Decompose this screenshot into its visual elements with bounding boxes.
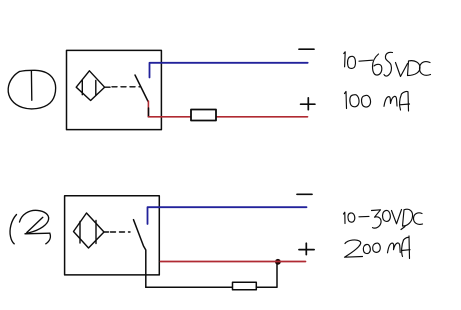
text 10-30VDC <box>344 209 423 229</box>
text 10-65 VDC <box>344 52 431 77</box>
wire blue negative circuit 1 <box>150 63 308 78</box>
actuation dashed link circuit 1 <box>112 86 140 88</box>
wire blue negative circuit 2 <box>148 207 307 224</box>
wire bottom to resistor circuit 2 <box>146 286 233 288</box>
sensor box 2 <box>65 196 160 275</box>
text 200 mA <box>345 236 411 259</box>
wire red positive circuit 2 <box>161 261 306 263</box>
wire red vertical from switch circuit 1 <box>147 101 149 117</box>
wire black elbow at switch bottom circuit 1 <box>149 108 153 117</box>
wire red positive circuit 1 <box>149 116 308 118</box>
junction dot circuit 2 <box>275 259 281 265</box>
resistor R1 <box>191 110 216 121</box>
terminal plus circuit 1 <box>301 98 315 110</box>
terminal plus circuit 2 <box>299 243 314 254</box>
resistor R2 <box>233 282 257 289</box>
switch lever circuit 2 <box>134 220 146 288</box>
proximity sensor symbol (diamond) circuit 2 <box>74 213 109 248</box>
label (2) circuit number <box>10 210 50 243</box>
terminal minus circuit 2 <box>297 193 312 195</box>
label (1) circuit number <box>8 70 55 109</box>
actuation dashed link circuit 2 <box>111 231 131 233</box>
switch lever circuit 1 <box>135 75 148 102</box>
wire resistor to junction circuit 2 <box>256 263 277 288</box>
proximity sensor symbol (diamond) circuit 1 <box>76 71 110 101</box>
terminal minus circuit 1 <box>299 48 314 50</box>
sensor box 1 <box>67 50 162 129</box>
text 100 mA <box>345 91 410 111</box>
